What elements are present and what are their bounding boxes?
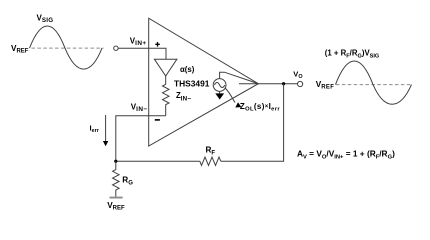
op-amp U1 THS3491 outline [149, 18, 259, 146]
output V_REF dashed baseline [336, 84, 412, 86]
V_REF terminal bar [110, 197, 123, 199]
minus sign (inverting input) [155, 119, 160, 121]
svg-text:α(s): α(s) [180, 65, 195, 74]
resistor Z_IN- [163, 76, 170, 116]
buffer alpha(s) [154, 59, 177, 76]
wire V_IN+ input to buffer [118, 48, 166, 59]
callout curve to Z_OL label [225, 88, 242, 108]
feedback wire down from output [221, 84, 284, 162]
feedback junction dot [114, 160, 117, 163]
controlled source Z_OL(s)xI_err circle [213, 79, 226, 92]
source top stub to output tip [220, 72, 259, 84]
plus sign (noninverting input) [155, 42, 160, 47]
input terminal circle [114, 46, 118, 50]
svg-text:THS3491: THS3491 [174, 78, 210, 88]
output junction dot [282, 82, 285, 85]
output terminal circle [298, 81, 303, 86]
sine glyph inside source [214, 83, 224, 88]
resistor R_G [113, 161, 120, 196]
input sine waveform [30, 26, 103, 69]
output wire [258, 83, 297, 85]
wire V_IN- to feedback node [116, 116, 166, 162]
wire R_F to feedback node [116, 160, 200, 162]
resistor R_F [200, 157, 221, 165]
output sine waveform [336, 61, 412, 104]
input V_REF dashed baseline [32, 47, 104, 49]
svg-text:AV = VO/VIN+ = 1 + (RF/RG): AV = VO/VIN+ = 1 + (RF/RG) [297, 149, 395, 161]
source bottom stub with down arrow [215, 91, 224, 99]
arrow I_ERR [103, 115, 108, 146]
